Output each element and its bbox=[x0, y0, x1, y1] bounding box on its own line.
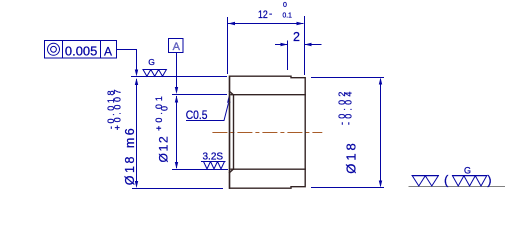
svg-text:G: G bbox=[464, 165, 471, 175]
svg-text:(: ( bbox=[444, 172, 449, 187]
svg-text:2: 2 bbox=[293, 30, 300, 44]
svg-text:Ø18 m6: Ø18 m6 bbox=[123, 126, 137, 185]
svg-text:0: 0 bbox=[160, 106, 170, 111]
svg-text:): ) bbox=[487, 172, 491, 187]
svg-text:0: 0 bbox=[283, 2, 287, 9]
svg-text:3.2S: 3.2S bbox=[203, 152, 224, 163]
svg-text:-: - bbox=[269, 9, 272, 20]
svg-text:Ø18: Ø18 bbox=[344, 140, 359, 174]
svg-text:-0.04: -0.04 bbox=[343, 88, 353, 125]
svg-text:12: 12 bbox=[258, 9, 268, 21]
svg-text:A: A bbox=[104, 44, 112, 58]
svg-text:A: A bbox=[173, 41, 181, 53]
svg-text:+0.007: +0.007 bbox=[113, 87, 123, 130]
svg-text:G: G bbox=[148, 57, 155, 67]
svg-text:Ø12: Ø12 bbox=[157, 134, 171, 162]
svg-text:0.005: 0.005 bbox=[65, 43, 98, 58]
svg-text:C0.5: C0.5 bbox=[186, 108, 208, 122]
svg-text:0.1: 0.1 bbox=[283, 12, 292, 19]
